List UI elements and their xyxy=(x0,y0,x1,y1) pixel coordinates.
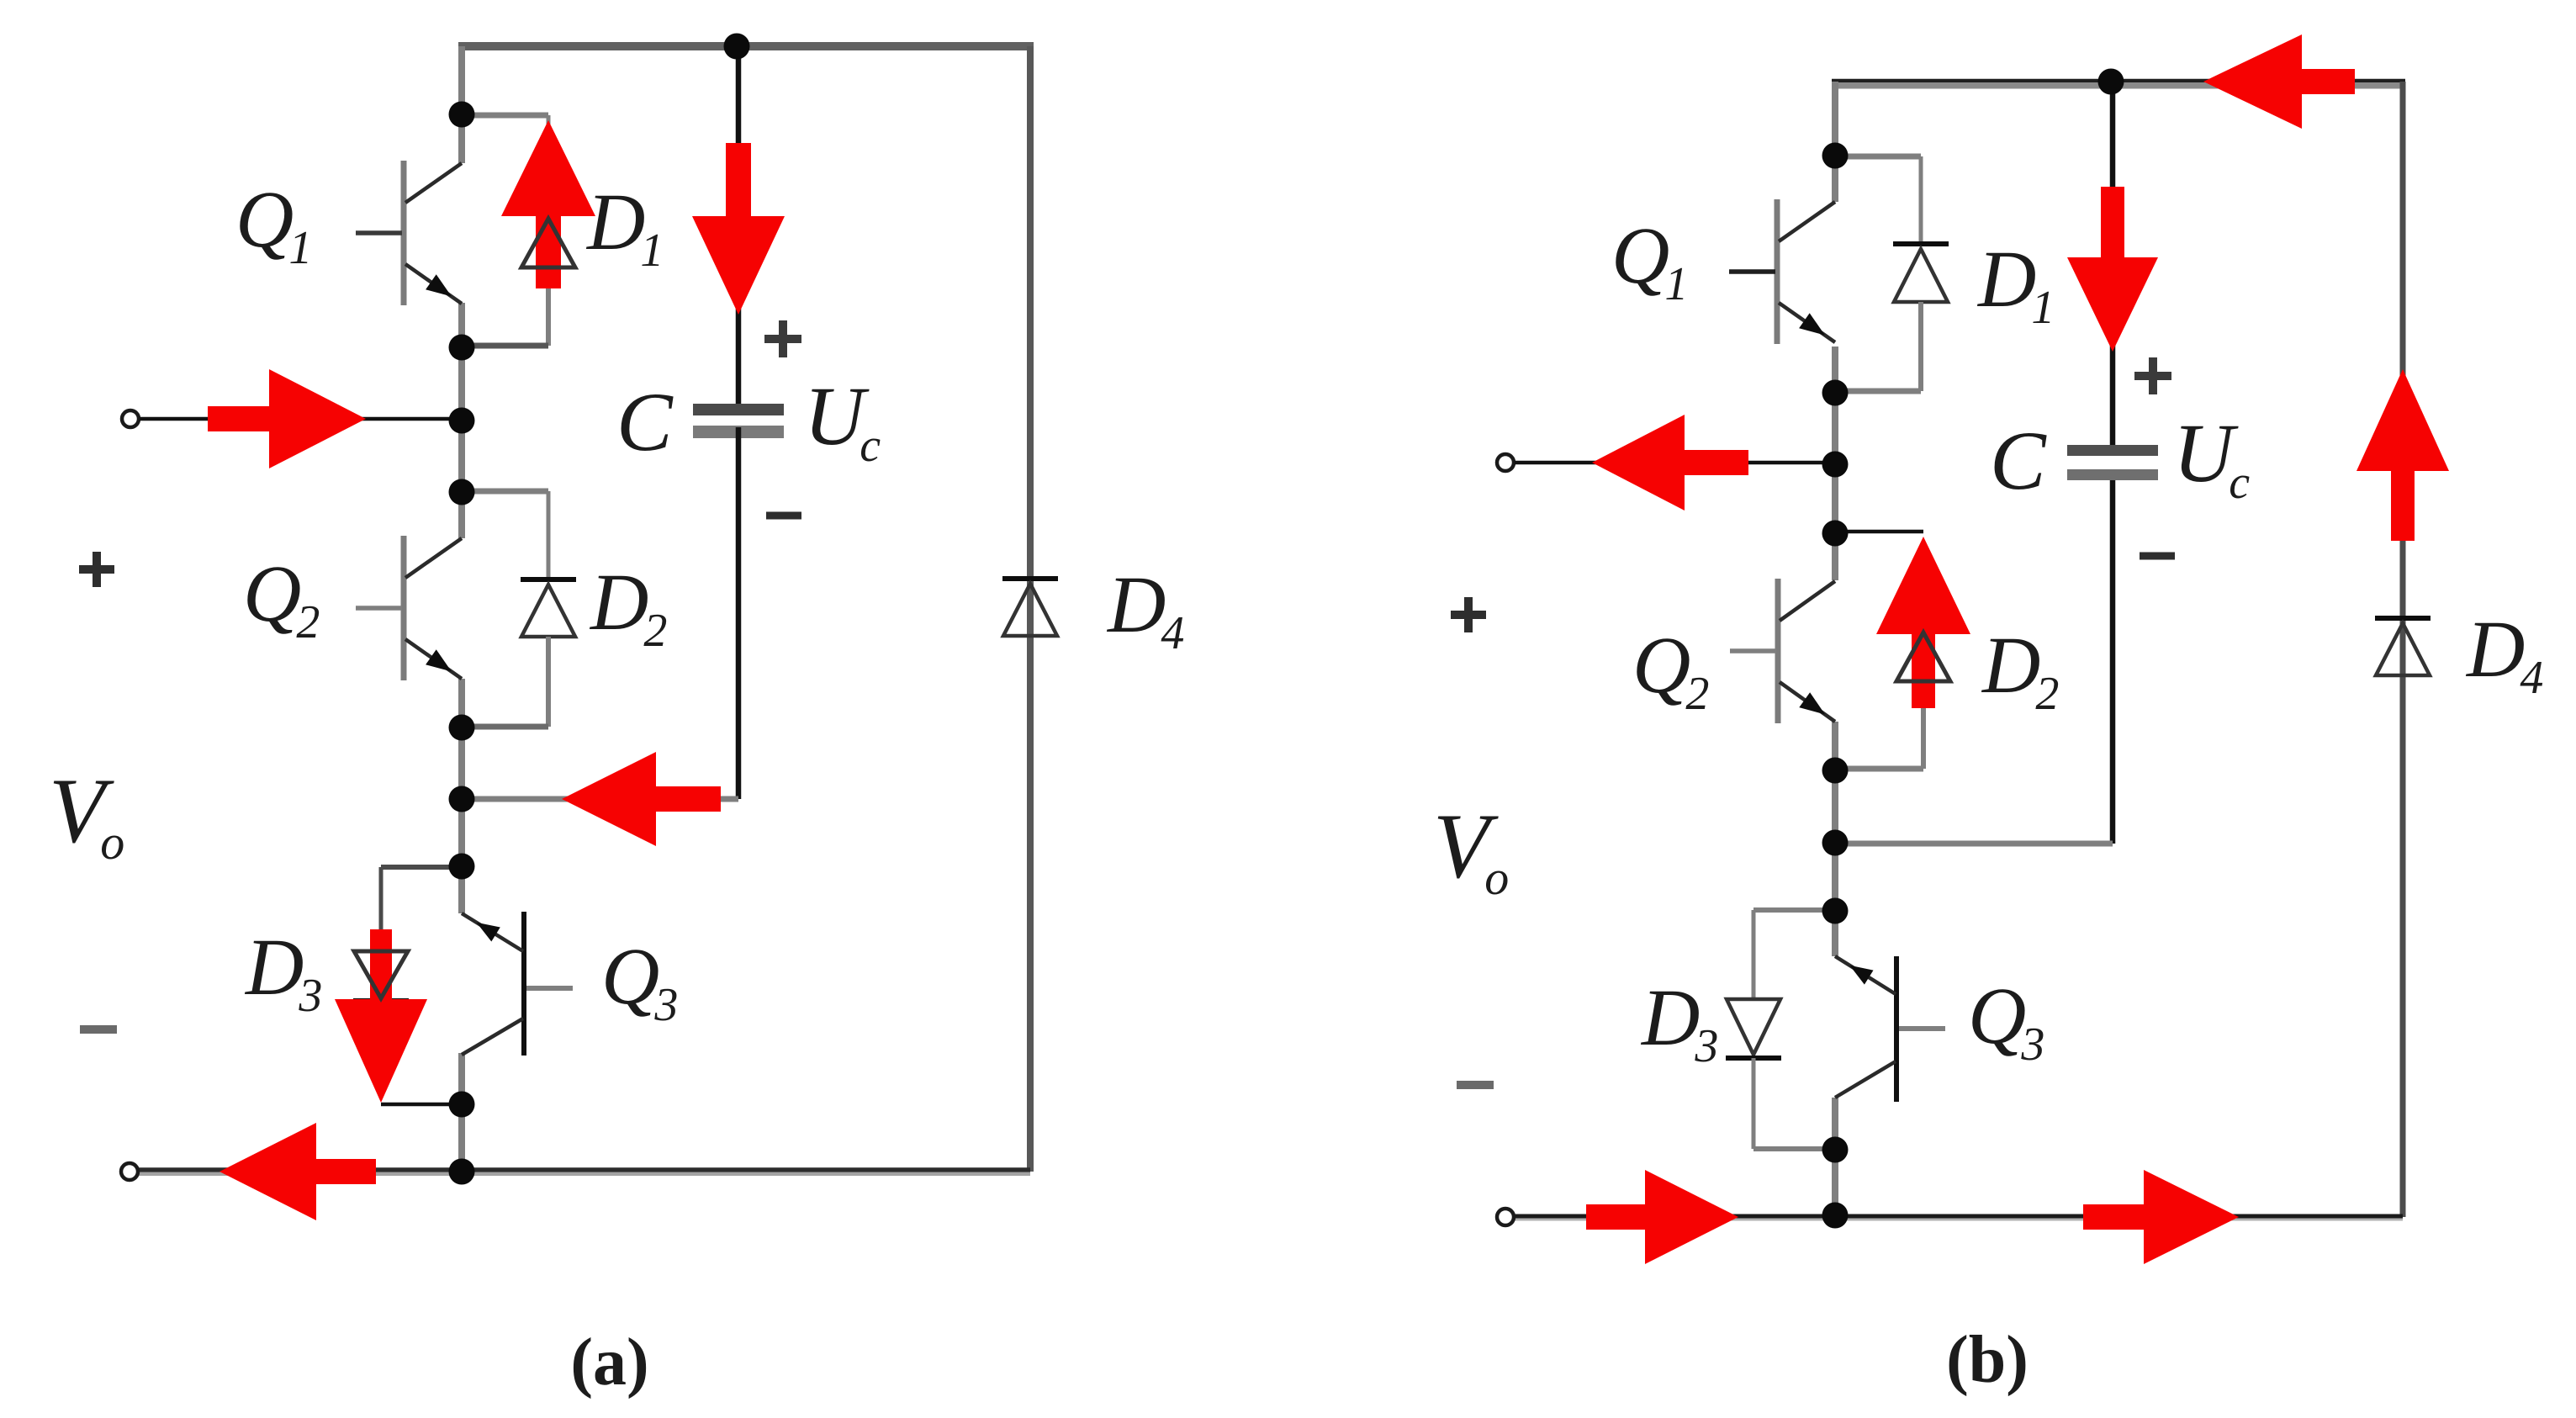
current arrow input (b, left) xyxy=(1592,415,1748,511)
label D3 xyxy=(244,922,322,1022)
current arrow through D3 (down) xyxy=(335,929,427,1103)
node D2 return (b) xyxy=(1822,758,1849,784)
label minus capacitor (b) xyxy=(2140,553,2175,560)
current arrow bottom left (b, right) xyxy=(1586,1170,1738,1264)
wire capacitor top (a) xyxy=(736,46,742,405)
svg-text:Uc: Uc xyxy=(2173,406,2250,509)
svg-text:D1: D1 xyxy=(585,177,664,277)
diode D2 (b) xyxy=(1896,632,1950,681)
node D3 return (b) xyxy=(1822,1137,1849,1163)
current arrow top rail (b, left) xyxy=(2203,34,2355,129)
terminal input (a) xyxy=(122,410,139,427)
node D1 return (b) xyxy=(1822,380,1849,406)
wire top rail (a) xyxy=(458,42,1034,50)
svg-text:D3: D3 xyxy=(1640,972,1718,1072)
node output rail (b) xyxy=(1822,1203,1849,1229)
label minus Vo (b) xyxy=(1457,1081,1494,1089)
diode D3 (b) xyxy=(1726,999,1781,1058)
wire D1 bottom (b) xyxy=(1835,302,1921,391)
label minus Vo (a) xyxy=(80,1025,117,1034)
svg-text:C: C xyxy=(1990,414,2047,507)
label D4 xyxy=(1106,559,1184,659)
node cap tap (b) xyxy=(2098,69,2124,95)
current arrow into capacitor (b, down) xyxy=(2067,187,2158,352)
svg-text:C: C xyxy=(616,375,674,468)
node D1 tap (b) xyxy=(1822,143,1849,169)
label Q1 (b) xyxy=(1611,210,1688,310)
transistor Q1 xyxy=(356,161,462,305)
label minus capacitor (a) xyxy=(766,512,801,520)
diode D4 xyxy=(1002,579,1058,636)
wire D2 bottom (b) xyxy=(1835,681,1923,769)
node output rail (a) xyxy=(449,1159,475,1185)
label Q2 xyxy=(243,548,320,648)
wire D4 right branch (a) xyxy=(1027,46,1034,1172)
svg-text:Vo: Vo xyxy=(1433,795,1509,905)
node cap return (b) xyxy=(1822,830,1849,856)
wire stack segment 4 (a) xyxy=(458,1053,465,1172)
wire stack segment 2 (a) xyxy=(458,303,465,538)
current arrow bottom right (b, right) xyxy=(2083,1170,2239,1264)
svg-text:Q3: Q3 xyxy=(1968,971,2044,1071)
wire D3 tap (b) xyxy=(1753,910,1835,999)
wire stack segment 1 (b) xyxy=(1832,82,1838,202)
svg-text:D4: D4 xyxy=(2465,604,2543,704)
label D2 (b) xyxy=(1981,620,2059,720)
wire input (a) xyxy=(140,417,462,421)
svg-text:(b): (b) xyxy=(1946,1323,2029,1397)
wire stack segment 2 (b) xyxy=(1832,347,1838,580)
wire D2 bottom (a) xyxy=(462,637,548,727)
transistor Q2 xyxy=(356,536,462,680)
terminal output (b) xyxy=(1497,1209,1514,1225)
label C (b) xyxy=(1990,414,2047,507)
wire stack segment 3 (b) xyxy=(1832,722,1838,956)
node D1 return (a) xyxy=(449,335,475,361)
node D3 tap (b) xyxy=(1822,898,1849,924)
svg-text:Uc: Uc xyxy=(804,369,881,472)
node D2 tap (a) xyxy=(449,479,475,505)
wire D2 top tap (a) xyxy=(462,491,548,579)
diode D3 cathode bar xyxy=(353,998,409,1003)
label Vo (b) xyxy=(1433,795,1509,905)
diode D2 xyxy=(521,579,576,637)
wire D3 bottom (b) xyxy=(1753,1058,1835,1149)
terminal output (a) xyxy=(121,1163,138,1180)
transistor Q2 (b) xyxy=(1730,579,1835,723)
label D2 xyxy=(589,557,667,657)
svg-text:D3: D3 xyxy=(244,922,322,1022)
node input (a) xyxy=(449,408,475,434)
wire D1 top tap (a) xyxy=(462,115,548,219)
transistor Q3 xyxy=(462,912,573,1056)
wire stack segment 3 (a) xyxy=(458,679,465,913)
diode D1 xyxy=(521,219,575,267)
label Uc (a) xyxy=(804,369,881,472)
wire D2 top tap (b) xyxy=(1835,530,1923,534)
wire stack segment 4 (b) xyxy=(1832,1098,1838,1217)
label Q3 (b) xyxy=(1968,971,2044,1071)
capacitor C (a) xyxy=(693,404,784,438)
wire D3 bottom (a) xyxy=(381,999,462,1104)
label C (a) xyxy=(616,375,674,468)
caption (a) xyxy=(570,1325,648,1399)
label D1 xyxy=(585,177,664,277)
svg-text:Q3: Q3 xyxy=(601,931,678,1031)
current arrow through D1 (up) xyxy=(501,120,595,288)
diode D4 (b) xyxy=(2375,618,2431,675)
node input (b) xyxy=(1822,452,1849,478)
wire D1 top tap (b) xyxy=(1835,156,1921,244)
svg-text:Q2: Q2 xyxy=(1632,620,1709,720)
svg-text:D2: D2 xyxy=(589,557,667,657)
current arrow input (a, right) xyxy=(208,369,366,468)
node cap return (a) xyxy=(449,786,475,812)
wire D3 tap (a) xyxy=(381,867,462,930)
current arrow into capacitor (a, down) xyxy=(692,143,785,315)
caption (b) xyxy=(1946,1323,2029,1397)
label D3 (b) xyxy=(1640,972,1718,1072)
wire capacitor top (b) xyxy=(2110,82,2116,447)
svg-text:(a): (a) xyxy=(570,1325,648,1399)
current arrow through D4 (b, up) xyxy=(2356,369,2449,541)
label Uc (b) xyxy=(2173,406,2250,509)
wire input (b) xyxy=(1515,461,1835,465)
label plus capacitor (b) xyxy=(2134,357,2171,394)
wire stack segment 1 (a) xyxy=(458,46,465,163)
wire D4 right branch (b) xyxy=(2400,82,2406,1217)
label Q1 xyxy=(235,174,312,274)
node D2 return (a) xyxy=(449,715,475,741)
svg-text:Q1: Q1 xyxy=(235,174,312,274)
label Q2 (b) xyxy=(1632,620,1709,720)
svg-text:D1: D1 xyxy=(1976,234,2055,334)
wire bottom rail (a) xyxy=(130,1170,1030,1174)
diode D1 (b) xyxy=(1893,244,1949,302)
wire D1 bottom (a) xyxy=(462,267,548,346)
svg-text:Q2: Q2 xyxy=(243,548,320,648)
capacitor C (b) xyxy=(2067,445,2158,480)
label plus capacitor (a) xyxy=(764,320,801,357)
node cap tap (a) xyxy=(724,34,750,60)
label plus Vo (a) xyxy=(79,552,114,587)
node D2 tap (b) xyxy=(1822,521,1849,547)
label Q3 xyxy=(601,931,678,1031)
label D4 (b) xyxy=(2465,604,2543,704)
label Vo (a) xyxy=(49,759,124,870)
svg-text:Vo: Vo xyxy=(49,759,124,870)
wire bottom rail (b) xyxy=(1514,1216,2403,1220)
label D1 (b) xyxy=(1976,234,2055,334)
node D3 return (a) xyxy=(449,1092,475,1118)
current arrow capacitor return (a, left) xyxy=(562,752,721,846)
wire capacitor bottom (a) xyxy=(462,427,738,799)
wire top rail (b) xyxy=(1832,81,2405,86)
svg-text:D2: D2 xyxy=(1981,620,2059,720)
node D1 tap (a) xyxy=(449,102,475,128)
terminal input (b) xyxy=(1497,454,1514,471)
svg-text:Q1: Q1 xyxy=(1611,210,1688,310)
node D3 tap (a) xyxy=(449,854,475,880)
transistor Q3 (b) xyxy=(1835,956,1945,1102)
wire capacitor bottom (b) xyxy=(1835,480,2113,844)
transistor Q1 (b) xyxy=(1729,199,1835,344)
current arrow output (a, left) xyxy=(220,1123,376,1220)
label plus Vo (b) xyxy=(1451,597,1486,632)
svg-text:D4: D4 xyxy=(1106,559,1184,659)
current arrow through D2 (b, up) xyxy=(1876,537,1970,708)
diode D3 xyxy=(354,951,408,998)
